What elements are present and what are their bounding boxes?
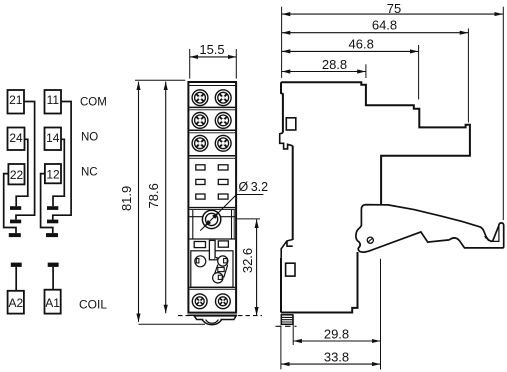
body bottom outer line [187,314,237,316]
dimension 75 [282,13,503,15]
inner wall left [192,210,194,239]
svg-text:29.8: 29.8 [324,327,349,342]
terminal box 11 [45,90,62,114]
row separator 1 [189,106,235,108]
side left edge upper [281,82,283,133]
lever wedge lines [493,226,499,242]
screw terminal row2 left [192,113,208,129]
svg-text:NC: NC [81,166,98,178]
bottom screw right [216,294,231,309]
wire coil A2 [15,267,17,291]
svg-text:12: 12 [46,168,60,182]
keyhole upper circle [218,256,228,266]
svg-text:COM: COM [80,97,107,109]
terminal window upper [286,118,296,130]
coil terminal bar A2 [11,263,22,267]
mounting surface dashed line [178,315,262,317]
svg-text:22: 22 [10,168,24,182]
dimension 64.8 [282,32,468,34]
screw terminal row3 left [192,135,208,151]
wire from terminal 24 [16,139,28,206]
center hole outer [202,210,220,228]
contact bar pole2 NO [47,206,58,210]
svg-text:46.8: 46.8 [349,37,374,52]
din tab inner arc [206,320,219,324]
terminal box A1 [45,290,61,314]
wire from terminal 11 [53,102,71,220]
diameter leader line [200,195,263,231]
lower slot left [194,242,205,248]
svg-text:Ø 3.2: Ø 3.2 [239,180,269,194]
din tab front [194,316,236,325]
leader arrow upper [212,212,219,219]
section separator [189,207,235,209]
dimension 28.8 [282,71,366,73]
wire from terminal 14 [53,139,64,206]
svg-text:81.9: 81.9 [119,186,134,211]
extension 75 right [502,7,504,220]
extension 64.8 right [467,29,469,123]
leader arrow lower [204,220,211,227]
terminal box A2 [8,291,24,314]
dimension 15.5 extension lines [190,49,237,79]
lower slot right [218,241,228,247]
slot row2 right [218,179,228,184]
inner frame [191,251,233,287]
extension bottom right shared [380,259,382,370]
terminal box 14 [45,128,62,151]
lever pivot screw [367,237,373,243]
slot row1 left [196,165,205,170]
extension 33.8 left [280,326,282,370]
wire from terminal 12 [41,174,53,234]
wire from terminal 21 [16,102,35,220]
center tall slot [209,240,215,259]
side left edge middle [292,146,294,240]
side bottom edge [281,252,358,313]
socket body outline [188,82,236,313]
contact bar pole1 NO [10,206,21,210]
extension line bottom of front view [139,323,206,325]
dimension 81.9 [138,82,140,322]
svg-text:64.8: 64.8 [372,17,397,32]
side profile top and steps [281,82,470,204]
terminal box 21 [8,90,25,114]
dimension 32.6 extension line [237,218,260,220]
dimension 29.8 [293,340,380,342]
svg-text:11: 11 [47,93,60,107]
slot row2 left [196,179,205,184]
extension 46.8 right [418,45,420,100]
terminal window lower [286,263,295,276]
side tab lower [281,240,293,258]
dimension 32.6 [256,220,258,316]
svg-text:24: 24 [9,131,23,145]
contact bar pole2 NC [46,233,58,237]
svg-text:NO: NO [81,132,98,144]
svg-text:A1: A1 [45,296,60,310]
svg-text:78.6: 78.6 [146,183,161,208]
svg-text:32.6: 32.6 [240,248,255,273]
lever spring serrations [485,236,492,242]
release lever [356,205,504,253]
svg-text:COIL: COIL [79,297,107,311]
row separator 2 [189,129,235,131]
svg-text:15.5: 15.5 [199,42,224,57]
svg-text:21: 21 [9,93,23,107]
bottom screw left [192,294,207,309]
dimension 33.8 [281,363,380,365]
extension 28.8 right [365,64,367,78]
keyhole middle square [218,267,224,271]
side tab upper [280,133,293,149]
contact bar pole1 NC [9,233,21,237]
screw terminal row3 right [215,135,231,151]
mid horizontal line [189,216,235,218]
lower section line [189,238,235,240]
svg-text:14: 14 [46,131,60,145]
center hole inner [206,213,218,225]
din clip side [281,315,293,325]
side dashed line [276,325,297,327]
inner wall right [231,210,233,239]
dimension 78.6 [165,82,167,314]
slot row3 left [196,194,205,199]
release hole left [195,256,206,267]
row separator 3 [189,155,235,157]
dimension 46.8 [282,50,419,52]
keyhole lower circle [213,273,223,283]
terminal box 12 [45,164,61,183]
svg-text:33.8: 33.8 [324,350,349,365]
terminal box 24 [8,128,25,151]
wire coil A1 [52,267,54,290]
dimension 15.5 [190,56,237,58]
extension line top of front view [135,79,185,81]
terminal box 22 [8,164,24,184]
coil terminal bar A1 [48,263,59,267]
contact bar pole1 COM [10,220,21,224]
bottom separator [189,286,235,288]
screw terminal row1 left [192,90,231,151]
svg-text:A2: A2 [8,296,23,310]
wire from terminal 22 [4,174,16,234]
svg-text:75: 75 [387,1,401,16]
svg-text:28.8: 28.8 [322,57,347,72]
side left edge lower [280,258,282,313]
slot row1 right [218,165,228,170]
extension 29.8 left [292,316,294,346]
keyhole slot diagonals [214,265,228,278]
screw terminal row2 right [215,113,231,129]
slot row3 right [218,194,228,199]
contact bar pole2 COM [47,220,58,224]
extension left [281,7,283,78]
screw terminal row1 right [215,90,231,106]
